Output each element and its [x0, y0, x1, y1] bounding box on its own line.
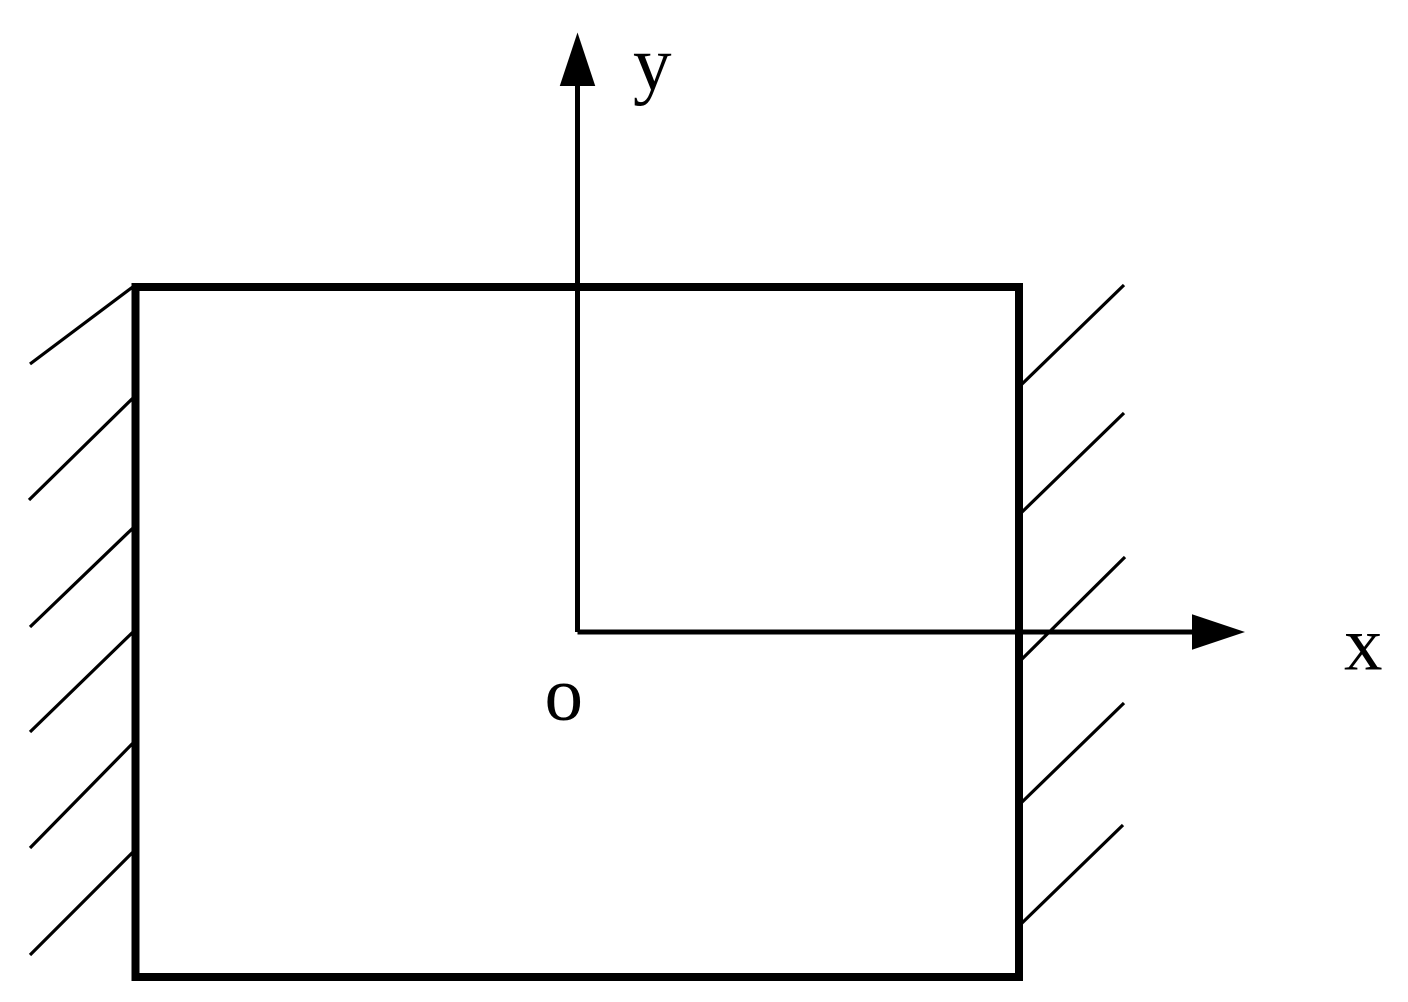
y-axis arrowhead: [560, 33, 596, 87]
fixed plate rectangle: [136, 287, 1020, 977]
left wall hatch 4: [30, 631, 134, 732]
left wall hatch 1: [30, 286, 134, 364]
right wall hatch 4: [1020, 703, 1124, 804]
right wall hatch 3: [1020, 557, 1125, 661]
x-axis shaft: [578, 630, 1197, 635]
right wall hatch 1: [1020, 285, 1124, 386]
svg-text:o: o: [545, 651, 584, 737]
right wall hatch 5: [1020, 825, 1123, 925]
left wall hatch 2: [29, 397, 134, 500]
left wall hatch 3: [30, 527, 134, 627]
left wall hatch 6: [30, 851, 134, 955]
y-axis shaft: [575, 80, 580, 632]
right wall hatch 2: [1020, 413, 1124, 514]
svg-text:y: y: [633, 21, 672, 107]
svg-text:x: x: [1344, 601, 1383, 687]
x-axis arrowhead: [1192, 614, 1245, 650]
left wall hatch 5: [30, 742, 134, 848]
